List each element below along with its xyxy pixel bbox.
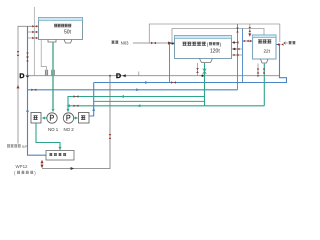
pipe: filter F1 outlet to heat exchanger <box>36 123 60 150</box>
T2 right inlet stub 1 <box>232 42 238 44</box>
flow arrow up on left riser <box>17 85 20 88</box>
flow arrow down into pump NO2 <box>67 109 70 112</box>
pipe: green bus B (mid drain link) <box>94 100 205 102</box>
valve on bus2 <box>31 89 36 91</box>
label セイウチSP <box>7 144 27 149</box>
svg-text:N03: N03 <box>121 40 129 45</box>
junction dot on D-line at WP riser <box>109 75 111 77</box>
pipe: T3 drain teal <box>263 64 265 106</box>
tank T1 inlet stub 3 <box>28 37 39 39</box>
valve on bus A <box>74 95 79 97</box>
flow arrow left at bus C end <box>67 104 70 107</box>
arrow pump NO1 to filter F1 <box>42 117 47 120</box>
pipe: well line riser 1 to top bus <box>149 24 280 43</box>
valve on inlet stub 3 <box>32 37 37 39</box>
svg-text:WP12: WP12 <box>16 164 29 169</box>
tank T3 label 新追直 <box>258 39 271 43</box>
pipe: teal bus C (drains to pump inlet) <box>68 105 264 107</box>
tank T1 foot left <box>48 40 56 43</box>
junction dot on D-line at drain <box>201 75 203 77</box>
tank T3 foot <box>261 59 269 63</box>
dashed link heat exchanger to WP line <box>41 160 44 168</box>
valve on T2 second drain <box>196 68 198 73</box>
label 水替り用 <box>14 171 36 176</box>
tank T2 label 新セイウチ(メイン) <box>183 42 222 47</box>
pipe: blue return main riser <box>28 26 47 155</box>
valve on inlet stub 2 <box>32 31 37 33</box>
pipe: well line riser 2 to second bus <box>172 29 264 44</box>
flow arrow up on blue riser <box>26 109 29 112</box>
valve on bus1 <box>171 81 176 83</box>
valve+arrow T2 right inlet 1 <box>232 41 238 43</box>
pump P NO2 <box>63 113 73 123</box>
valve on inlet stub 1 <box>32 25 37 27</box>
pipe: left supply riser to セイウチSP <box>18 26 39 143</box>
valve on bus C <box>74 105 79 107</box>
svg-text:22t: 22t <box>264 48 271 53</box>
pipe: blue bus1 (filter2 to tanks) <box>94 45 287 83</box>
flow arrow right on WP12 line <box>71 167 74 170</box>
pipe: T3 second drain stub <box>257 64 259 76</box>
valve pair on blue riser <box>26 53 28 58</box>
tank T2 foot <box>200 59 213 63</box>
valve on T2 drain (teal ticks) <box>203 69 206 75</box>
flow arrow down into heat exchanger <box>59 147 62 150</box>
flow arrow into T2 left <box>168 42 171 45</box>
pipe: teal T1 foot drain to pump NO1 <box>52 43 54 109</box>
valve on T3 top branch <box>249 27 251 32</box>
tank T1 inlet stub 2 <box>28 31 39 33</box>
tank T1 label 旧セイウチ <box>54 24 71 28</box>
valve+arrow T2 left inlet <box>168 42 174 44</box>
valve on T3 drain <box>263 69 265 74</box>
pipe: teal T2 drain <box>204 63 206 106</box>
tank T1 body (旧セイウチ 50t) <box>39 18 83 40</box>
flow arrow right on bus1 <box>145 81 148 84</box>
flow arrow down into pump NO1 <box>52 109 55 112</box>
label 井戸 (from well) <box>284 41 295 44</box>
T2 right inlet stub 2 <box>232 48 243 50</box>
pump P NO1 <box>47 113 57 123</box>
svg-text:50t: 50t <box>64 29 72 35</box>
pipe: green bus A (T2 drain to pump NO2) <box>68 97 205 110</box>
flow arrow up on WP riser <box>109 134 111 139</box>
stub tick above D-line <box>138 72 140 76</box>
valve+arrow T2 right inlet 2 <box>232 48 239 50</box>
pipe: WP12 bottom line <box>42 76 110 169</box>
flow arrow left on bus C mid <box>137 104 140 107</box>
svg-text:120t: 120t <box>210 49 220 55</box>
tank T3 body (新追直 22t) <box>253 35 277 59</box>
node D left label <box>20 73 25 78</box>
T2 right inlet stub 3 <box>232 54 243 56</box>
flow arrow right on bus2 <box>136 88 139 91</box>
filter F2 box <box>79 113 90 124</box>
svg-text:SP: SP <box>22 144 28 149</box>
pipe: riser to T2 left inlet <box>170 44 175 83</box>
井水 NO3 label <box>112 40 130 45</box>
valve on x=238.7 <box>236 28 238 33</box>
tank T1 foot right <box>64 40 72 44</box>
filter F1 box <box>31 113 41 124</box>
pipe: D header branch to T3 top <box>250 24 280 42</box>
pipe: filter F2 outlet riser blue <box>89 83 94 117</box>
valve on well line <box>151 42 156 44</box>
tank T2 body (新セイウチ メイン 120t) <box>175 36 232 59</box>
valve+arrow T3 right inlet <box>277 43 284 45</box>
svg-text:NO 2: NO 2 <box>64 127 75 132</box>
D-line main gray header <box>26 75 280 77</box>
valve on left riser <box>17 51 19 56</box>
pipe: right feed vertical x=238.7 <box>237 24 239 90</box>
pipe: blue bus2 (heat-exchange return to T2 right) <box>28 89 238 91</box>
pipe: T2 second drain stub <box>197 63 199 76</box>
junction dot D-line / blue riser <box>26 75 29 78</box>
node D mid label with arrow <box>116 73 126 78</box>
flow arrow up on F2 riser <box>92 108 95 111</box>
twin gate valves on T1 drain link <box>45 70 54 76</box>
heat exchanger box 熱交換器 <box>46 151 74 161</box>
tank T3 left inlet stub <box>243 40 253 42</box>
pipe: T1 drain gray x=37.5 <box>41 40 46 76</box>
pipe: well water line into T2 left <box>133 42 175 44</box>
arrow pump NO2 to filter F2 <box>74 117 78 120</box>
svg-text:NO 1: NO 1 <box>48 127 59 132</box>
flow arrow left on bus A <box>121 95 124 98</box>
valve T2 right inlet 3 <box>234 54 239 56</box>
valve on T3 second drain <box>257 69 259 74</box>
pipe: short gray stub line x=34 <box>33 7 35 76</box>
pipe: right feed vertical x=242.5 <box>242 29 244 83</box>
